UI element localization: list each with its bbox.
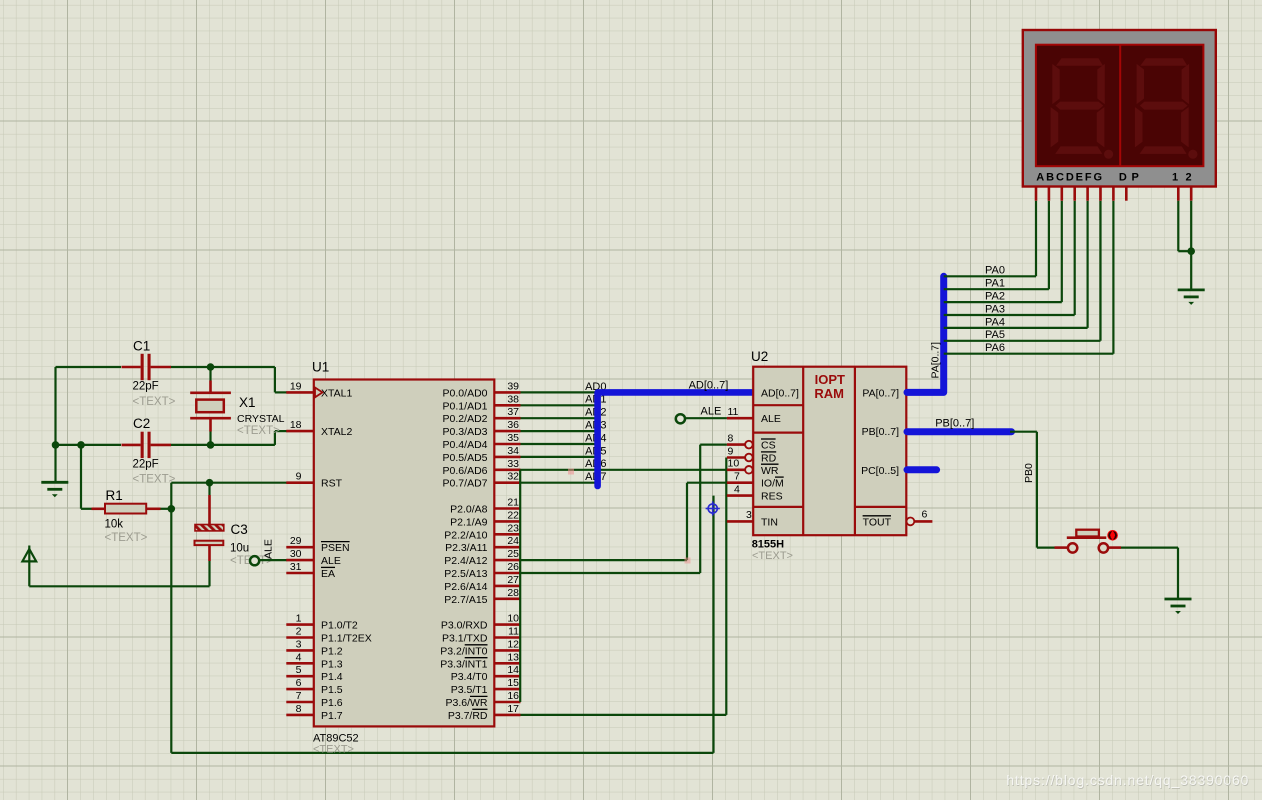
wire R1 left leg bbox=[80, 445, 82, 509]
svg-text:P2.5/A13: P2.5/A13 bbox=[444, 568, 487, 580]
pin 33 U1 bbox=[494, 468, 520, 471]
pin 34 U1 bbox=[494, 456, 520, 459]
svg-text:3: 3 bbox=[296, 638, 302, 650]
junction display ground bbox=[1187, 247, 1195, 255]
svg-text:XTAL1: XTAL1 bbox=[321, 387, 352, 399]
svg-text:EA: EA bbox=[321, 568, 335, 580]
svg-text:U1: U1 bbox=[312, 360, 329, 375]
wire P2.5 to CS bbox=[521, 572, 701, 574]
pin 26 U1 bbox=[494, 572, 520, 575]
svg-text:<TEXT>: <TEXT> bbox=[752, 550, 793, 562]
svg-text:P3.4/T0: P3.4/T0 bbox=[451, 671, 488, 683]
svg-text:11: 11 bbox=[728, 406, 739, 418]
pin 8 P1.7 U1 bbox=[286, 714, 314, 717]
pin 15 U1 bbox=[494, 688, 520, 691]
svg-text:7: 7 bbox=[734, 471, 740, 483]
artifact pink mark 2 bbox=[685, 558, 691, 564]
svg-text:34: 34 bbox=[507, 445, 519, 457]
svg-text:PB[0..7]: PB[0..7] bbox=[935, 418, 974, 430]
resistor R1 bbox=[92, 507, 106, 510]
svg-text:19: 19 bbox=[290, 380, 302, 392]
svg-text:P0.0/AD0: P0.0/AD0 bbox=[443, 387, 488, 399]
svg-text:22pF: 22pF bbox=[133, 381, 159, 393]
artifact pink mark 1 bbox=[568, 469, 574, 475]
svg-text:PA5: PA5 bbox=[985, 329, 1005, 341]
display pins bbox=[1035, 188, 1038, 201]
pin 9 RD U2 bbox=[727, 456, 745, 459]
svg-text:R1: R1 bbox=[106, 488, 123, 503]
svg-text:P3.1/TXD: P3.1/TXD bbox=[442, 633, 488, 645]
ground symbol left bbox=[54, 445, 56, 482]
pin 37 U1 bbox=[494, 417, 520, 420]
svg-text:30: 30 bbox=[290, 548, 302, 560]
pin 16 U1 bbox=[494, 701, 520, 704]
svg-text:RD: RD bbox=[761, 453, 777, 465]
wire long bottom reset net bbox=[171, 752, 713, 754]
svg-text:P2.4/A12: P2.4/A12 bbox=[444, 555, 487, 567]
display DS1 body bbox=[1023, 30, 1216, 187]
svg-text:5: 5 bbox=[296, 664, 302, 676]
svg-text:P2.0/A8: P2.0/A8 bbox=[450, 504, 488, 516]
svg-text:ABCDEFG: ABCDEFG bbox=[1036, 171, 1104, 183]
svg-text:P: P bbox=[1132, 171, 1139, 183]
svg-text:9: 9 bbox=[728, 445, 734, 457]
button actuator icon bbox=[1107, 530, 1118, 541]
pin 4 RES U2 bbox=[727, 494, 753, 497]
wire PA2 bbox=[944, 301, 1062, 303]
pin 13 U1 bbox=[494, 662, 520, 665]
wire RST vertical down bbox=[170, 483, 172, 753]
svg-text:PA2: PA2 bbox=[985, 291, 1005, 303]
ground symbol top right bbox=[1178, 288, 1205, 291]
junction C2/X1 bbox=[207, 441, 215, 449]
bus PA[0..7] bbox=[907, 276, 944, 392]
pin 24 U1 bbox=[494, 546, 520, 549]
display inner panel bbox=[1036, 45, 1204, 167]
wire P3.6 WR vertical bbox=[519, 470, 521, 702]
wire AD5 bus entry bbox=[521, 456, 596, 458]
svg-text:22pF: 22pF bbox=[133, 458, 159, 470]
svg-text:U2: U2 bbox=[751, 349, 768, 364]
display digit 2 segments bbox=[1140, 58, 1187, 66]
svg-text:22: 22 bbox=[507, 509, 519, 521]
pin 19 XTAL1 U1 bbox=[286, 391, 314, 394]
svg-text:12: 12 bbox=[507, 638, 519, 650]
wire C1-to-C2 left vertical bbox=[54, 367, 56, 445]
pin 14 U1 bbox=[494, 675, 520, 678]
svg-text:CRYSTAL: CRYSTAL bbox=[237, 413, 285, 425]
svg-text:26: 26 bbox=[507, 561, 519, 573]
bus AD[0..7] bbox=[598, 392, 752, 486]
wire PA1 bbox=[944, 288, 1049, 290]
display digit 1 segments bbox=[1056, 58, 1103, 66]
svg-text:<TEXT>: <TEXT> bbox=[133, 396, 176, 408]
svg-text:PA1: PA1 bbox=[985, 278, 1005, 290]
capacitor C3 bottom leg bbox=[208, 545, 211, 561]
svg-text:P1.7: P1.7 bbox=[321, 710, 343, 722]
capacitor C1 bbox=[122, 366, 141, 369]
pin 2 P1.1/T2EX U1 bbox=[286, 636, 314, 639]
pin 5 P1.4 U1 bbox=[286, 675, 314, 678]
pin 22 U1 bbox=[494, 520, 520, 523]
svg-text:P1.4: P1.4 bbox=[321, 671, 343, 683]
svg-text:ALE: ALE bbox=[701, 406, 722, 418]
svg-text:8: 8 bbox=[296, 703, 302, 715]
wire PA6 bbox=[944, 353, 1114, 355]
wire AD7 bus entry bbox=[521, 482, 596, 484]
svg-text:XTAL2: XTAL2 bbox=[321, 426, 352, 438]
svg-text:7: 7 bbox=[296, 690, 302, 702]
op U1 body AT89C52 bbox=[314, 380, 495, 727]
svg-text:P1.1/T2EX: P1.1/T2EX bbox=[321, 633, 372, 645]
pin 9 RST U1 bbox=[286, 481, 314, 484]
svg-text:3: 3 bbox=[746, 509, 752, 521]
svg-text:P3.0/RXD: P3.0/RXD bbox=[441, 620, 488, 632]
wire display pin2 to ground bbox=[1190, 201, 1192, 290]
svg-text:C3: C3 bbox=[231, 522, 248, 537]
junction C2/R1 branch bbox=[77, 441, 85, 449]
wire AD1 bus entry bbox=[521, 404, 596, 406]
wire PA4 bbox=[944, 327, 1088, 329]
junction R1/RST bbox=[168, 505, 176, 513]
op U2 body 8155H bbox=[753, 367, 906, 536]
svg-text:PSEN: PSEN bbox=[321, 542, 350, 554]
wire display pin1 bbox=[1177, 201, 1179, 252]
svg-text:4: 4 bbox=[734, 483, 740, 495]
pin 6 P1.5 U1 bbox=[286, 688, 314, 691]
svg-text:38: 38 bbox=[507, 393, 519, 405]
svg-text:P0.1/AD1: P0.1/AD1 bbox=[443, 400, 488, 412]
bus PC[0..5] bbox=[907, 466, 937, 473]
svg-text:AD[0..7]: AD[0..7] bbox=[689, 379, 729, 391]
svg-text:P1.2: P1.2 bbox=[321, 645, 343, 657]
svg-text:13: 13 bbox=[507, 651, 519, 663]
svg-text:P2.6/A14: P2.6/A14 bbox=[444, 581, 487, 593]
svg-text:https://blog.csdn.net/qq_38390: https://blog.csdn.net/qq_38390060 bbox=[1006, 772, 1249, 788]
svg-text:P2.1/A9: P2.1/A9 bbox=[450, 516, 488, 528]
svg-text:6: 6 bbox=[296, 677, 302, 689]
wire PA0 bbox=[944, 275, 1036, 277]
capacitor C2 bbox=[122, 444, 141, 447]
pin 32 U1 bbox=[494, 481, 520, 484]
pin 3 P1.2 U1 bbox=[286, 649, 314, 652]
pin 23 U1 bbox=[494, 533, 520, 536]
wire AD3 bus entry bbox=[521, 430, 596, 432]
svg-text:15: 15 bbox=[507, 677, 519, 689]
pin 27 U1 bbox=[494, 585, 520, 588]
pin 10 U1 bbox=[494, 623, 520, 626]
svg-text:P1.6: P1.6 bbox=[321, 697, 343, 709]
svg-text:PA4: PA4 bbox=[985, 316, 1005, 328]
svg-text:1: 1 bbox=[1172, 171, 1178, 183]
svg-text:P0.7/AD7: P0.7/AD7 bbox=[443, 478, 488, 490]
svg-text:2: 2 bbox=[296, 626, 302, 638]
svg-text:PB[0..7]: PB[0..7] bbox=[862, 426, 899, 438]
bus PB[0..7] bbox=[907, 428, 1012, 435]
pin 29 PSEN U1 bbox=[286, 546, 314, 549]
svg-text:P3.5/T1: P3.5/T1 bbox=[451, 684, 488, 696]
junction C1/X1 bbox=[207, 363, 215, 371]
pin 11 ALE U2 bbox=[727, 417, 753, 420]
svg-text:P0.4/AD4: P0.4/AD4 bbox=[443, 439, 488, 451]
svg-text:PA[0..7]: PA[0..7] bbox=[930, 342, 942, 379]
svg-text:TOUT: TOUT bbox=[863, 516, 892, 528]
svg-text:RES: RES bbox=[761, 491, 783, 503]
svg-text:P3.7/RD: P3.7/RD bbox=[448, 710, 488, 722]
capacitor C3 bbox=[195, 525, 224, 531]
svg-text:PA6: PA6 bbox=[985, 342, 1005, 354]
svg-text:C2: C2 bbox=[133, 416, 150, 431]
pin 31 EA U1 bbox=[286, 572, 314, 575]
wire button right bbox=[1108, 546, 1121, 549]
wire XTAL2 connection bbox=[274, 431, 276, 445]
wire PA3 bbox=[944, 314, 1075, 316]
pin 25 U1 bbox=[494, 559, 520, 562]
wire RST row bbox=[171, 482, 287, 484]
pin 7 IO/M U2 bbox=[727, 481, 753, 484]
svg-text:24: 24 bbox=[507, 535, 519, 547]
wire C1 top net bbox=[56, 366, 122, 368]
pin 10 WR U2 bbox=[727, 468, 745, 471]
svg-text:33: 33 bbox=[507, 458, 519, 470]
svg-text:11: 11 bbox=[508, 626, 519, 638]
svg-text:32: 32 bbox=[507, 471, 519, 483]
ground symbol bottom right bbox=[1165, 598, 1192, 601]
wire PA5 bbox=[944, 340, 1101, 342]
svg-text:ALE: ALE bbox=[321, 555, 341, 567]
svg-text:PA0: PA0 bbox=[985, 265, 1005, 277]
power terminal arrow bbox=[28, 546, 30, 587]
svg-text:RAM: RAM bbox=[814, 386, 844, 401]
svg-text:PC[0..5]: PC[0..5] bbox=[861, 465, 899, 477]
svg-text:X1: X1 bbox=[239, 395, 256, 410]
pin 7 P1.6 U1 bbox=[286, 701, 314, 704]
button SW1 bbox=[1055, 546, 1069, 549]
svg-text:29: 29 bbox=[290, 535, 302, 547]
svg-text:8: 8 bbox=[728, 432, 734, 444]
pin 11 U1 bbox=[494, 636, 520, 639]
svg-text:25: 25 bbox=[507, 548, 519, 560]
wire bottom-left power net bbox=[29, 585, 209, 587]
pin 4 P1.3 U1 bbox=[286, 662, 314, 665]
svg-text:36: 36 bbox=[507, 419, 519, 431]
svg-text:21: 21 bbox=[507, 497, 519, 509]
svg-text:P3.6/WR: P3.6/WR bbox=[445, 697, 487, 709]
svg-text:P1.5: P1.5 bbox=[321, 684, 343, 696]
clock input marker XTAL1 bbox=[315, 388, 323, 398]
pin 30 ALE U1 bbox=[286, 559, 314, 562]
svg-text:C1: C1 bbox=[133, 339, 150, 354]
svg-text:<TEXT>: <TEXT> bbox=[313, 744, 354, 756]
wire button left bbox=[1037, 546, 1055, 548]
pin 38 U1 bbox=[494, 404, 520, 407]
svg-text:PA[0..7]: PA[0..7] bbox=[862, 387, 899, 399]
svg-text:P0.2/AD2: P0.2/AD2 bbox=[443, 413, 488, 425]
junction C2 left bbox=[52, 441, 60, 449]
svg-text:P2.3/A11: P2.3/A11 bbox=[445, 542, 488, 554]
svg-text:35: 35 bbox=[507, 432, 519, 444]
svg-text:TIN: TIN bbox=[761, 516, 778, 528]
svg-text:10k: 10k bbox=[105, 519, 124, 531]
pin 21 U1 bbox=[494, 507, 520, 510]
svg-text:10: 10 bbox=[728, 458, 740, 470]
svg-text:P0.3/AD3: P0.3/AD3 bbox=[443, 426, 488, 438]
wire XTAL1 connection bbox=[274, 367, 276, 392]
wire AD6 / WR long net bbox=[520, 469, 727, 471]
wire C2 row bbox=[56, 444, 122, 446]
svg-text:<TEXT>: <TEXT> bbox=[237, 425, 280, 437]
svg-text:18: 18 bbox=[290, 419, 302, 431]
svg-text:<TEXT>: <TEXT> bbox=[133, 474, 176, 486]
svg-text:D: D bbox=[1119, 171, 1127, 183]
svg-text:WR: WR bbox=[761, 465, 779, 477]
svg-text:P0.5/AD5: P0.5/AD5 bbox=[443, 452, 488, 464]
wire AD4 bus entry bbox=[521, 443, 596, 445]
pin 39 U1 bbox=[494, 391, 520, 394]
svg-text:9: 9 bbox=[296, 471, 302, 483]
svg-text:RST: RST bbox=[321, 478, 343, 490]
pin 12 U1 bbox=[494, 649, 520, 652]
svg-text:10: 10 bbox=[507, 613, 519, 625]
svg-text:P3.3/INT1: P3.3/INT1 bbox=[440, 658, 487, 670]
svg-text:PB0: PB0 bbox=[1023, 463, 1035, 483]
svg-text:39: 39 bbox=[507, 380, 519, 392]
wire AD2 bus entry bbox=[521, 417, 596, 419]
svg-text:IOPT: IOPT bbox=[815, 372, 845, 387]
svg-text:<TEXT>: <TEXT> bbox=[105, 532, 148, 544]
svg-text:P0.6/AD6: P0.6/AD6 bbox=[443, 465, 488, 477]
svg-text:ALE: ALE bbox=[263, 539, 275, 559]
pin 36 U1 bbox=[494, 430, 520, 433]
pin 3 TIN U2 bbox=[727, 520, 753, 523]
wire P3.7 RD net bbox=[521, 714, 727, 716]
terminal ALE right bbox=[676, 414, 685, 423]
wire R1 right to RST node bbox=[161, 508, 172, 510]
svg-text:PA3: PA3 bbox=[985, 303, 1005, 315]
wire PB0 net bbox=[1010, 431, 1037, 433]
svg-text:2: 2 bbox=[1185, 171, 1191, 183]
svg-text:P1.3: P1.3 bbox=[321, 658, 343, 670]
pin 35 U1 bbox=[494, 443, 520, 446]
svg-text:P2.7/A15: P2.7/A15 bbox=[444, 594, 487, 606]
no-connect marker bbox=[706, 501, 720, 515]
crystal X1 bbox=[209, 367, 211, 381]
svg-text:27: 27 bbox=[507, 574, 519, 586]
svg-text:10u: 10u bbox=[230, 543, 249, 555]
svg-text:4: 4 bbox=[296, 651, 302, 663]
pin 18 XTAL2 U1 bbox=[286, 430, 314, 433]
svg-text:8155H: 8155H bbox=[752, 539, 784, 551]
terminal ALE left bbox=[250, 556, 259, 565]
junction RST/C3 bbox=[206, 479, 214, 487]
svg-text:ALE: ALE bbox=[761, 413, 781, 425]
wire P2.4 to IO/M bbox=[521, 559, 688, 561]
svg-text:31: 31 bbox=[290, 561, 302, 573]
svg-text:CS: CS bbox=[761, 440, 776, 452]
svg-text:P3.2/INT0: P3.2/INT0 bbox=[440, 645, 487, 657]
svg-text:14: 14 bbox=[507, 664, 519, 676]
svg-text:1: 1 bbox=[296, 613, 302, 625]
svg-text:16: 16 bbox=[507, 690, 519, 702]
svg-text:6: 6 bbox=[922, 509, 928, 521]
wire AD0 bus entry bbox=[521, 391, 596, 393]
pin 1 P1.0/T2 U1 bbox=[286, 623, 314, 626]
svg-text:P2.2/A10: P2.2/A10 bbox=[444, 529, 487, 541]
svg-text:P1.0/T2: P1.0/T2 bbox=[321, 620, 358, 632]
svg-text:37: 37 bbox=[507, 406, 519, 418]
svg-text:17: 17 bbox=[507, 703, 519, 715]
pin 8 CS U2 bbox=[727, 443, 745, 446]
svg-text:IO/M: IO/M bbox=[761, 478, 784, 490]
svg-text:28: 28 bbox=[507, 587, 519, 599]
capacitor C3 top leg bbox=[208, 483, 210, 495]
pin 28 U1 bbox=[494, 597, 520, 600]
svg-text:23: 23 bbox=[507, 522, 519, 534]
svg-text:AD[0..7]: AD[0..7] bbox=[761, 387, 799, 399]
pin 17 U1 bbox=[494, 714, 520, 717]
